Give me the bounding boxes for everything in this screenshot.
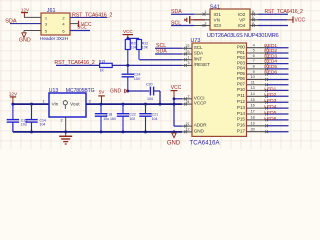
- svg-text:15: 15: [251, 98, 255, 102]
- capacitor C21 104: [139, 104, 158, 132]
- U73 pin 12 GND: [182, 128, 205, 134]
- svg-text:U13: U13: [49, 88, 59, 94]
- ground port GND (at U73): [167, 133, 181, 147]
- svg-text:IO3: IO3: [214, 23, 222, 28]
- resistor R19 1K: [99, 60, 112, 73]
- svg-text:20: 20: [251, 127, 255, 131]
- svg-text:VCC: VCC: [295, 18, 306, 24]
- U73 pin 17 P14: [237, 110, 268, 116]
- svg-text:104: 104: [40, 123, 46, 127]
- svg-text:LED1: LED1: [264, 86, 276, 92]
- wire P15: [267, 119, 289, 121]
- U73 pin 7 P03: [237, 59, 268, 65]
- svg-text:P01: P01: [237, 50, 245, 55]
- svg-text:VCCI: VCCI: [194, 95, 205, 100]
- svg-text:14: 14: [251, 92, 255, 96]
- wire 12V rail: [13, 103, 49, 105]
- U73 pin 6 P02: [237, 54, 268, 60]
- svg-text:10K: 10K: [142, 46, 149, 50]
- wire P05: [267, 73, 289, 75]
- wire U13 pin2 to ground: [65, 117, 67, 136]
- U73 pin 5 P01: [237, 49, 268, 55]
- svg-text:Header 3X2H: Header 3X2H: [40, 36, 69, 42]
- svg-text:U73: U73: [191, 38, 201, 44]
- svg-text:3: 3: [88, 100, 90, 104]
- svg-text:RED3: RED3: [264, 53, 277, 59]
- svg-text:10u: 10u: [21, 123, 27, 127]
- svg-text:SCL: SCL: [77, 24, 87, 30]
- svg-text:104: 104: [152, 117, 158, 121]
- junction GND port on rail: [173, 130, 176, 133]
- svg-text:SDA: SDA: [5, 19, 17, 25]
- junction C21 top: [144, 103, 147, 106]
- U73 pin 11 P07: [237, 80, 268, 86]
- svg-text:C21: C21: [152, 112, 158, 116]
- svg-text:SDA: SDA: [171, 9, 182, 15]
- capacitor C22 102: [117, 104, 136, 132]
- regulator U13 MC7805BTG: [42, 88, 94, 123]
- U73 pin 23 SDA: [182, 50, 204, 56]
- capacitor C13 104: [7, 104, 28, 132]
- svg-text:C22: C22: [129, 112, 135, 116]
- svg-text:11: 11: [251, 80, 255, 84]
- svg-text:12V: 12V: [21, 7, 30, 12]
- svg-text:P17: P17: [237, 129, 245, 134]
- svg-text:P11: P11: [237, 93, 245, 98]
- svg-text:LED6: LED6: [264, 116, 276, 122]
- svg-text:17: 17: [251, 110, 255, 114]
- svg-text:8: 8: [253, 64, 255, 68]
- svg-text:GND: GND: [19, 38, 31, 44]
- junction RESET/R20/C24: [126, 64, 129, 67]
- svg-text:GND: GND: [194, 129, 205, 134]
- wire RST to R19: [56, 64, 100, 66]
- svg-text:P03: P03: [237, 60, 245, 65]
- wire J61 pin6 SCL: [70, 30, 90, 32]
- svg-text:P15: P15: [237, 117, 245, 122]
- junction C22 bottom: [122, 130, 125, 133]
- wire S41 pin6 RST: [258, 13, 288, 15]
- svg-text:MC7805BTG: MC7805BTG: [66, 88, 95, 94]
- wire SDA to S41: [171, 13, 194, 15]
- U73 pin 24 VCCP: [182, 100, 206, 106]
- svg-text:P02: P02: [237, 55, 245, 60]
- U73 pin 2 VCCI: [182, 95, 204, 101]
- svg-text:1K: 1K: [100, 68, 105, 72]
- power port 5V: [98, 90, 105, 105]
- svg-text:C24: C24: [134, 72, 140, 76]
- svg-text:5: 5: [253, 49, 255, 53]
- wire S41 pin4: [258, 25, 288, 27]
- junction ground rail / U13: [64, 130, 67, 133]
- svg-text:5V: 5V: [99, 90, 106, 95]
- svg-text:ADDR: ADDR: [194, 123, 207, 128]
- wire VCC vertical: [173, 98, 175, 127]
- svg-text:P16: P16: [237, 123, 245, 128]
- svg-text:VP: VP: [239, 18, 245, 23]
- svg-text:TCA6416A: TCA6416A: [190, 140, 220, 146]
- junction VCC tee: [126, 37, 129, 40]
- svg-text:LED2: LED2: [264, 92, 276, 98]
- svg-text:10u 16V: 10u 16V: [103, 117, 117, 121]
- svg-text:GND: GND: [110, 88, 122, 94]
- IO expander U73 TCA6416A: [190, 38, 247, 146]
- svg-text:104: 104: [147, 97, 153, 101]
- svg-text:2: 2: [188, 95, 190, 99]
- junction C18 bottom: [100, 130, 103, 133]
- wire P06: [267, 78, 289, 80]
- svg-text:LED5: LED5: [264, 110, 276, 116]
- junction C14 top: [30, 103, 33, 106]
- svg-text:SDA: SDA: [194, 51, 204, 56]
- U73 pin 15 P12: [237, 98, 268, 104]
- U73 pin 8 P04: [237, 64, 268, 70]
- svg-text:UDT26A03L6S NUP4301MR6: UDT26A03L6S NUP4301MR6: [207, 33, 279, 39]
- U73 pin 9 P05: [237, 70, 268, 76]
- junction C14 bottom: [30, 130, 33, 133]
- svg-text:19: 19: [251, 121, 255, 125]
- svg-text:IO4: IO4: [238, 23, 246, 28]
- resistor R20 10K: [125, 38, 137, 65]
- svg-text:/RESET: /RESET: [194, 62, 210, 67]
- wire 5V rail: [86, 103, 182, 105]
- wire SDA to U73: [155, 53, 182, 55]
- svg-text:P06: P06: [237, 76, 245, 81]
- svg-text:102: 102: [129, 117, 135, 121]
- svg-text:LED3: LED3: [264, 98, 276, 104]
- junction C21 bottom: [144, 130, 147, 133]
- resistor R22 10K: [137, 38, 149, 59]
- power port VCC (J61 pin 4): [70, 21, 92, 28]
- wire VCC tee: [128, 37, 139, 39]
- svg-text:P07: P07: [237, 82, 245, 87]
- power port VCC (at S41): [287, 16, 305, 23]
- wire P07: [267, 84, 289, 86]
- wire P10: [267, 89, 289, 91]
- power port 12V (J61 pin 1): [21, 7, 30, 17]
- svg-text:RST_TCA6416_2: RST_TCA6416_2: [72, 12, 112, 18]
- power port 12V (regulator input): [9, 91, 18, 104]
- junction VCC rail: [173, 103, 176, 106]
- earth ground under U13: [59, 136, 72, 144]
- svg-text:Vout: Vout: [70, 102, 80, 108]
- U73 pin 19 P16: [237, 121, 268, 127]
- wire GND to C20: [128, 90, 150, 92]
- capacitor C20 104: [146, 82, 154, 100]
- wire P13: [267, 107, 289, 109]
- junction C20 branch: [159, 103, 162, 106]
- svg-text:C18: C18: [106, 112, 112, 116]
- wire P17: [267, 131, 289, 133]
- wire ADDR branch: [174, 125, 182, 127]
- wire P04: [267, 68, 289, 70]
- wire R19 to RESET pin: [112, 64, 182, 66]
- svg-text:Vin: Vin: [52, 102, 59, 108]
- svg-text:C14: C14: [40, 118, 46, 122]
- svg-text:4: 4: [253, 43, 255, 47]
- svg-text:P14: P14: [237, 111, 245, 116]
- capacitor C24 104: [122, 65, 141, 91]
- wire P12: [267, 101, 289, 103]
- svg-text:P05: P05: [237, 71, 245, 76]
- U73 pin 13 P10: [237, 86, 268, 92]
- U73 pin 20 P17: [237, 127, 268, 133]
- wire R22 to INT pin: [140, 59, 183, 61]
- svg-text:LED4: LED4: [264, 104, 276, 110]
- svg-text:6: 6: [253, 54, 255, 58]
- svg-text:104: 104: [134, 77, 140, 81]
- wire P00: [267, 47, 289, 49]
- power port VCC (U73 supply): [171, 85, 182, 98]
- svg-text:P12: P12: [237, 99, 245, 104]
- svg-text:P04: P04: [237, 66, 245, 71]
- svg-text:7: 7: [253, 59, 255, 63]
- svg-text:SDA: SDA: [156, 49, 167, 55]
- wire P16: [267, 125, 289, 127]
- svg-text:1: 1: [188, 56, 190, 60]
- svg-text:3: 3: [188, 61, 190, 65]
- U73 pin 4 P00: [237, 43, 268, 49]
- svg-text:J61: J61: [47, 8, 56, 14]
- svg-text:C20: C20: [146, 82, 152, 86]
- svg-text:P00: P00: [237, 45, 245, 50]
- svg-text:9: 9: [253, 70, 255, 74]
- capacitor C14 104: [25, 104, 46, 132]
- junction VCCI: [173, 97, 176, 100]
- wire J61 pin1: [24, 16, 41, 18]
- U73 pin 16 P13: [237, 104, 268, 110]
- svg-text:IO1: IO1: [214, 12, 222, 17]
- svg-text:R19: R19: [99, 60, 105, 64]
- power port VCC (pull-ups): [123, 29, 134, 38]
- ground port at S41 VN pin: [184, 16, 205, 24]
- wire J61 pin5: [24, 31, 41, 33]
- svg-text:18: 18: [251, 116, 255, 120]
- junction 5V/C18: [100, 103, 103, 106]
- U73 pin 14 P11: [237, 92, 268, 98]
- wire P01: [267, 52, 289, 54]
- ground GND (J61 pin 5): [19, 33, 31, 44]
- wire P02: [267, 57, 289, 59]
- svg-text:1: 1: [42, 100, 44, 104]
- svg-text:RED4: RED4: [264, 59, 277, 65]
- ground port GND (mid): [110, 88, 128, 94]
- ESD array S41 NUP4301MR6: [194, 5, 279, 39]
- wire VCCI branch: [174, 98, 182, 100]
- connector J61 Header 3X2H: [40, 8, 70, 42]
- junction C22 top: [122, 103, 125, 106]
- svg-text:VCCP: VCCP: [194, 101, 206, 106]
- wire C13 bottom corner: [12, 122, 14, 132]
- U73 pin 10 P06: [237, 75, 268, 81]
- wire SCL to S41: [171, 25, 194, 27]
- U73 pin 1 /INT: [182, 56, 202, 62]
- svg-text:RED6: RED6: [264, 69, 277, 75]
- svg-text:GND: GND: [167, 141, 181, 147]
- wire SDA to J61 pin3: [10, 23, 41, 25]
- svg-text:SCL: SCL: [171, 21, 181, 27]
- U73 pin 22 SCL: [182, 44, 203, 50]
- wire P03: [267, 63, 289, 65]
- svg-text:16: 16: [251, 104, 255, 108]
- junction C24/GND: [126, 90, 129, 93]
- U73 pin 18 P15: [237, 116, 268, 122]
- svg-text:VCC: VCC: [123, 29, 133, 34]
- svg-text:S41: S41: [210, 5, 220, 11]
- svg-text:/INT: /INT: [194, 56, 203, 61]
- svg-text:2: 2: [60, 119, 62, 123]
- wire P11: [267, 95, 289, 97]
- svg-text:VN: VN: [214, 18, 220, 23]
- svg-text:P13: P13: [237, 105, 245, 110]
- U73 pin 21 ADDR: [182, 122, 207, 128]
- wire ground rail: [13, 131, 182, 133]
- wire C20 to 5V rail: [154, 91, 160, 104]
- svg-text:RED1: RED1: [264, 43, 277, 49]
- svg-text:RED2: RED2: [264, 48, 277, 54]
- U73 pin 3 /RESET: [182, 61, 210, 67]
- wire J61 pin2 RST: [70, 16, 107, 18]
- wire P14: [267, 113, 289, 115]
- wire SCL to U73: [155, 47, 182, 49]
- svg-text:IO2: IO2: [238, 12, 246, 17]
- svg-text:RST_TCA6416_2: RST_TCA6416_2: [265, 9, 304, 15]
- svg-text:13: 13: [251, 86, 255, 90]
- svg-text:P10: P10: [237, 87, 245, 92]
- svg-text:RED5: RED5: [264, 64, 277, 70]
- svg-text:SCL: SCL: [194, 45, 203, 50]
- wire S41 pin5 VCC: [258, 19, 287, 21]
- junction 12V/C13: [11, 103, 14, 106]
- svg-text:10: 10: [251, 75, 255, 79]
- capacitor C18 10u16V: [95, 104, 117, 132]
